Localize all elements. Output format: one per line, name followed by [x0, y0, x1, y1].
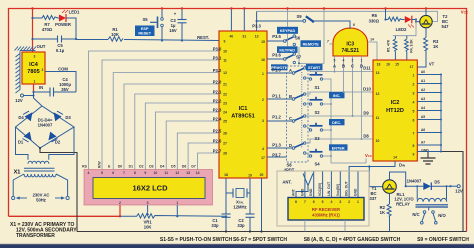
wire RF GND stubs — [305, 220, 345, 232]
svg-text:28: 28 — [223, 152, 227, 156]
svg-text:50Hz: 50Hz — [36, 198, 46, 203]
svg-text:6: 6 — [112, 171, 114, 175]
antenna — [296, 174, 313, 198]
svg-text:17: 17 — [410, 65, 414, 69]
switch S2 — [309, 103, 311, 105]
svg-text:LIN. OUT: LIN. OUT — [327, 182, 331, 196]
wire Vcc to R6 — [385, 9, 387, 20]
RF receiver module RX1 — [288, 198, 364, 221]
resistor R5 — [393, 36, 397, 60]
svg-text:P1.3: P1.3 — [272, 143, 281, 148]
svg-text:21: 21 — [223, 83, 227, 87]
svg-text:23: 23 — [223, 102, 227, 106]
svg-text:N/C: N/C — [412, 212, 419, 217]
wire S8-A up throw to D11 row — [306, 68, 373, 72]
svg-text:S9 = ON/OFF SWITCH: S9 = ON/OFF SWITCH — [417, 237, 469, 243]
wire bus P2.4 to LCD D4 — [166, 121, 219, 170]
wire 5V to R1/reset — [76, 40, 219, 41]
wire bus P2.2 to LCD D2 — [145, 103, 219, 170]
svg-text:P1.1: P1.1 — [272, 94, 281, 99]
ground symbol — [427, 152, 429, 158]
wire S3 right — [323, 129, 331, 131]
svg-text:5: 5 — [334, 59, 336, 63]
svg-text:17: 17 — [261, 156, 265, 160]
potentiometer VR1 — [120, 214, 226, 218]
wire A4 — [417, 110, 441, 112]
svg-text:330Ω: 330Ω — [369, 19, 380, 24]
svg-text:S9: S9 — [296, 14, 302, 19]
gate IC3 74LS21 — [333, 28, 368, 56]
svg-text:10K: 10K — [144, 225, 152, 230]
svg-text:6: 6 — [353, 23, 355, 27]
svg-text:33p: 33p — [211, 223, 219, 228]
wire A2 — [417, 92, 441, 94]
svg-text:ESP: ESP — [141, 27, 149, 31]
svg-text:5: 5 — [322, 200, 324, 204]
wire red IN — [33, 84, 35, 92]
label box KEYPAD 2 — [277, 46, 298, 53]
wire red Vcc vertical from top rail to IC4 OUT — [32, 9, 34, 53]
svg-text:12MHz: 12MHz — [233, 205, 246, 210]
label box ESP RESET — [135, 26, 155, 37]
svg-text:KEYPAD: KEYPAD — [280, 29, 296, 33]
svg-text:ENTER: ENTER — [332, 146, 345, 150]
svg-text:D2: D2 — [139, 165, 143, 169]
svg-text:IN: IN — [39, 85, 43, 90]
svg-text:74LS21: 74LS21 — [342, 48, 360, 54]
diode D4 — [25, 112, 33, 121]
node 12V relay supply — [449, 185, 451, 187]
svg-text:P1.2: P1.2 — [272, 115, 281, 120]
wire REMOTE common to Vcc drop — [299, 47, 324, 64]
wire XTAL pin18 — [226, 178, 233, 193]
svg-text:11: 11 — [164, 171, 168, 175]
svg-text:4: 4 — [330, 200, 332, 204]
svg-text:S4: S4 — [314, 162, 320, 167]
wire A6 — [417, 132, 441, 134]
wire LED2 junction down to R5 R4 — [393, 20, 416, 36]
wire bus P3.2 to LCD E — [113, 73, 219, 170]
capacitor C1 — [225, 193, 227, 232]
svg-text:D10: D10 — [363, 87, 371, 92]
svg-text:3: 3 — [339, 200, 341, 204]
svg-text:3: 3 — [413, 92, 415, 96]
svg-text:4: 4 — [262, 147, 264, 151]
svg-text:10: 10 — [223, 50, 227, 54]
wire bus P3.1 to LCD R/W — [102, 60, 219, 170]
ground rail bottom — [77, 231, 467, 233]
wire XTAL pin19 — [247, 178, 250, 193]
svg-text:R5, 47K: R5, 47K — [387, 39, 391, 52]
svg-text:P3.6: P3.6 — [272, 53, 281, 58]
svg-text:IC1: IC1 — [239, 106, 248, 112]
resistor R3 — [417, 37, 427, 67]
svg-text:START: START — [308, 66, 321, 70]
svg-text:A6: A6 — [421, 128, 425, 132]
svg-text:D2: D2 — [55, 140, 61, 145]
svg-text:N/O: N/O — [438, 213, 446, 218]
svg-text:D1: D1 — [18, 140, 24, 145]
svg-text:R4, 3.9K: R4, 3.9K — [410, 39, 414, 53]
bridge rectifier D1-D4 — [16, 106, 75, 148]
wire S2 right — [323, 103, 331, 105]
gate input column A — [334, 56, 336, 72]
resistor R1 — [108, 37, 123, 42]
svg-text:7: 7 — [123, 171, 125, 175]
LCD top pin numbers 4-14 — [88, 171, 200, 175]
LED1 — [59, 15, 66, 22]
svg-text:S6-S7 = SPDT SWITCH: S6-S7 = SPDT SWITCH — [233, 237, 287, 243]
decoder IC2 HT12D — [373, 60, 417, 161]
wire address common vertical — [440, 75, 442, 152]
svg-text:9: 9 — [224, 40, 226, 44]
LCD yellow display 16X2 LCD — [93, 178, 205, 199]
relay contacts N/C N/O — [423, 211, 426, 214]
microcontroller IC1 AT89C51 — [219, 31, 267, 178]
LCD signal labels RS R/W E D0-D7 — [82, 165, 196, 169]
svg-text:RS: RS — [82, 165, 87, 169]
svg-text:7805: 7805 — [27, 69, 39, 75]
svg-text:15: 15 — [395, 63, 399, 67]
svg-text:LED1: LED1 — [69, 10, 80, 15]
svg-text:S3: S3 — [314, 136, 320, 141]
svg-text:1: 1 — [361, 59, 363, 63]
switch S6 — [267, 40, 284, 42]
svg-text:1K: 1K — [380, 210, 385, 215]
wire P3.3 to S9 — [257, 20, 303, 22]
svg-text:D9: D9 — [363, 111, 369, 116]
svg-text:D11: D11 — [363, 66, 371, 71]
svg-text:VCC: VCC — [365, 153, 373, 158]
switch S5 reset — [161, 9, 163, 41]
heatsink for IC4 — [15, 47, 37, 94]
resistor R7 — [33, 16, 59, 20]
svg-text:C: C — [289, 116, 292, 121]
svg-text:C: C — [351, 64, 354, 69]
svg-text:1: 1 — [176, 201, 178, 205]
label box REMOTE 1 — [301, 40, 322, 47]
wire bus P2.5 to LCD D5 — [177, 133, 219, 170]
wire bridge GND (dark) — [40, 148, 77, 232]
wire IC1 pin31 EA Vcc — [243, 9, 245, 32]
svg-text:25: 25 — [223, 120, 227, 124]
svg-text:POWER: POWER — [55, 22, 71, 27]
wire A5 — [417, 119, 441, 121]
gate input column C — [352, 56, 354, 116]
switch S4 — [309, 155, 311, 157]
resistor R2 — [387, 193, 391, 231]
transistor T2 BC547 — [420, 15, 432, 27]
capacitor C4 electrolytic — [34, 91, 77, 93]
svg-text:433MHz (RX1): 433MHz (RX1) — [312, 213, 340, 218]
svg-text:3: 3 — [34, 55, 36, 59]
svg-text:2: 2 — [42, 68, 44, 72]
svg-text:RESET: RESET — [138, 32, 151, 36]
svg-text:VCC(5V): VCC(5V) — [318, 183, 322, 196]
svg-text:D3: D3 — [65, 115, 71, 120]
svg-text:D4: D4 — [18, 115, 24, 120]
wire S1 right — [323, 79, 366, 163]
wire S8-C up throw to D9 row — [306, 115, 373, 117]
svg-text:6: 6 — [413, 119, 415, 123]
wire T1 collector to relay line — [390, 172, 406, 186]
switch S3 — [309, 129, 311, 131]
svg-text:S5: S5 — [142, 17, 148, 22]
svg-text:REST.: REST. — [197, 35, 209, 40]
svg-text:22: 22 — [223, 93, 227, 97]
svg-text:9: 9 — [413, 153, 415, 157]
wire IC1 pin40 Vcc — [230, 9, 232, 32]
regulator IC4 7805 — [22, 52, 45, 84]
svg-text:REMOTE: REMOTE — [303, 43, 320, 47]
capacitor C5 — [33, 38, 77, 40]
wire KEYPAD pull to Vcc — [287, 9, 289, 47]
wire LCD pin3 to VR1 wiper — [147, 205, 149, 213]
svg-text:7: 7 — [413, 132, 415, 136]
wire primary left to terminal — [13, 174, 24, 196]
wire A7 — [417, 144, 441, 146]
svg-text:Vcc(5V): Vcc(5V) — [336, 184, 340, 196]
svg-text:A5: A5 — [421, 115, 425, 119]
svg-text:ANT.: ANT. — [292, 189, 296, 196]
svg-text:33p: 33p — [237, 223, 245, 228]
svg-text:3: 3 — [147, 201, 149, 205]
S8 mechanical link dotted — [301, 72, 303, 148]
svg-text:4: 4 — [413, 101, 415, 105]
svg-text:S8 (A, B, C, D) = 4PDT GANGED: S8 (A, B, C, D) = 4PDT GANGED SWITCH — [304, 237, 401, 243]
switch S7 — [267, 58, 284, 60]
wire bus P3.0 to LCD RS — [89, 51, 220, 170]
svg-text:470Ω: 470Ω — [42, 27, 53, 32]
svg-text:20: 20 — [260, 173, 264, 177]
svg-text:DEC.: DEC. — [332, 121, 341, 125]
svg-text:4: 4 — [88, 171, 90, 175]
LCD module pink board — [84, 170, 213, 206]
svg-text:12: 12 — [175, 171, 179, 175]
svg-text:AT89C51: AT89C51 — [231, 114, 255, 120]
label box REMOTE 2 — [271, 64, 288, 70]
switch S1 — [309, 78, 311, 80]
svg-text:31: 31 — [242, 35, 246, 39]
diode D5 1N4007 — [406, 185, 451, 187]
svg-text:S1-S5 = PUSH-TO-ON SWITCH: S1-S5 = PUSH-TO-ON SWITCH — [160, 237, 233, 243]
svg-text:A4: A4 — [421, 106, 425, 110]
wire IN down to bridge — [34, 92, 43, 106]
wire GND pin9 — [417, 151, 441, 153]
svg-text:D6: D6 — [182, 165, 186, 169]
IC1 left pin numbers — [223, 40, 227, 156]
svg-text:INC.: INC. — [333, 94, 341, 98]
gate input column D — [361, 56, 363, 139]
svg-text:RELAY: RELAY — [396, 201, 410, 206]
switch bank S8 dashed box — [287, 66, 309, 162]
svg-text:13: 13 — [255, 35, 259, 39]
svg-text:D8: D8 — [363, 134, 369, 139]
svg-text:B: B — [289, 94, 292, 99]
svg-text:D0: D0 — [118, 165, 122, 169]
svg-text:2: 2 — [413, 83, 415, 87]
svg-text:D7: D7 — [191, 165, 195, 169]
svg-text:16: 16 — [386, 63, 390, 67]
gate output pin 6 — [349, 21, 351, 29]
svg-text:D5: D5 — [171, 165, 175, 169]
svg-text:LED2: LED2 — [396, 27, 407, 32]
resistor R6 — [386, 17, 405, 21]
IC1 left port labels — [213, 47, 222, 154]
svg-text:35V: 35V — [61, 87, 69, 92]
svg-text:DIN: DIN — [399, 163, 405, 168]
svg-text:S2: S2 — [314, 110, 320, 115]
svg-text:KEYPAD: KEYPAD — [279, 49, 295, 53]
diode D2 — [48, 132, 56, 141]
transistor T1 BC337 — [383, 180, 397, 194]
svg-text:10K: 10K — [111, 32, 119, 37]
svg-text:D1: D1 — [129, 165, 133, 169]
svg-text:15: 15 — [261, 40, 265, 44]
switch S9 — [303, 20, 306, 23]
wire bus P2.3 to LCD D3 — [155, 112, 219, 170]
diode D1 — [24, 132, 32, 141]
svg-text:IC4: IC4 — [29, 62, 39, 68]
wire S8-C down throw to S3 — [306, 126, 309, 130]
wire Din pin14 — [349, 161, 395, 198]
svg-text:27: 27 — [223, 142, 227, 146]
wire S8-B down throw to S2 — [306, 103, 309, 105]
wire S8-B up throw to D10 row — [306, 92, 373, 94]
svg-text:1N4007: 1N4007 — [38, 123, 53, 128]
svg-text:COM: COM — [58, 67, 68, 72]
svg-text:IC3: IC3 — [346, 42, 354, 48]
svg-text:D: D — [289, 143, 292, 148]
svg-text:18: 18 — [377, 63, 381, 67]
svg-text:10: 10 — [154, 171, 158, 175]
wire IC1 pin20 GND — [261, 178, 263, 232]
wire A3 — [417, 101, 441, 103]
wire COM to C4 — [45, 72, 76, 93]
svg-text:A0: A0 — [421, 70, 425, 74]
wire bridge AC right — [49, 127, 74, 160]
svg-text:14: 14 — [196, 171, 200, 175]
label box KEYPAD 1 — [277, 27, 298, 34]
svg-text:11: 11 — [223, 59, 227, 63]
svg-text:A7: A7 — [421, 141, 425, 145]
svg-text:5: 5 — [413, 110, 415, 114]
svg-text:12V: 12V — [455, 189, 463, 194]
svg-text:18: 18 — [224, 173, 228, 177]
wire bus P2.6 to LCD D6 — [188, 143, 219, 170]
wire bridge AC left — [16, 127, 29, 160]
RF module enclosure — [277, 171, 369, 226]
svg-text:ANT.: ANT. — [282, 180, 291, 185]
svg-text:3: 3 — [262, 119, 264, 123]
svg-text:GND: GND — [309, 188, 313, 196]
svg-text:A1: A1 — [421, 79, 425, 83]
svg-text:12: 12 — [376, 92, 380, 96]
svg-text:1: 1 — [34, 80, 36, 84]
RF module rotated pin labels — [292, 181, 358, 196]
capacitor C3 electrolytic — [181, 9, 183, 41]
svg-text:26: 26 — [223, 132, 227, 136]
svg-text:4: 4 — [343, 59, 345, 63]
svg-text:A2: A2 — [421, 88, 425, 92]
svg-text:OUT: OUT — [37, 44, 46, 49]
svg-text:P3.5: P3.5 — [272, 34, 281, 39]
wire S8-D up throw to D8 row — [306, 139, 373, 143]
svg-text:GND: GND — [300, 188, 304, 196]
svg-text:1: 1 — [262, 72, 264, 76]
capacitor C2 — [249, 193, 251, 232]
wire IC1 pin13 P3.3 up — [256, 11, 258, 31]
svg-text:VT: VT — [429, 62, 435, 67]
svg-text:7: 7 — [304, 200, 306, 204]
node 12V terminal — [21, 94, 24, 97]
svg-text:8: 8 — [295, 200, 297, 204]
label box ENTER — [329, 144, 348, 150]
svg-text:GND: GND — [354, 188, 358, 196]
svg-text:0.1µ: 0.1µ — [56, 48, 65, 53]
svg-text:14: 14 — [370, 38, 374, 42]
gate input column B — [343, 56, 345, 92]
wire bus P2.1 to LCD D1 — [135, 94, 219, 170]
svg-text:VCC: VCC — [461, 10, 469, 15]
wire A0 — [417, 74, 441, 76]
svg-text:A3: A3 — [421, 97, 425, 101]
resistor R4 — [405, 36, 409, 60]
svg-text:S6: S6 — [295, 36, 301, 41]
svg-text:2: 2 — [262, 98, 264, 102]
svg-text:13: 13 — [376, 71, 380, 75]
diode D3 — [54, 112, 62, 121]
svg-text:16V: 16V — [169, 28, 177, 33]
wire bus P2.0 to LCD D0 — [124, 84, 219, 170]
label box DEC. — [329, 119, 345, 125]
svg-text:8: 8 — [134, 171, 136, 175]
svg-text:1N4007: 1N4007 — [407, 179, 422, 184]
svg-text:HT12D: HT12D — [386, 108, 404, 114]
svg-text:B: B — [342, 64, 345, 69]
wire S8-D down throw to S4 — [306, 153, 309, 156]
svg-text:IC2: IC2 — [391, 100, 400, 106]
svg-text:16: 16 — [261, 58, 265, 62]
LED2 — [405, 16, 412, 23]
svg-text:337: 337 — [370, 196, 378, 201]
LCD bottom pin numbers 2 3 1 — [119, 201, 178, 205]
svg-text:8: 8 — [413, 144, 415, 148]
wire primary right to terminal — [56, 174, 68, 196]
label box START — [306, 64, 323, 70]
svg-text:2: 2 — [119, 201, 121, 205]
crystal XTAL 12MHz — [232, 189, 234, 198]
svg-text:12: 12 — [223, 71, 227, 75]
label box INC. — [329, 92, 345, 98]
wire Vcc drop x324 — [323, 9, 325, 64]
wire gray line P3.3 top run — [257, 11, 438, 21]
wire A1 — [417, 83, 441, 85]
wire S9 to gate output — [313, 21, 350, 29]
svg-text:1: 1 — [413, 74, 415, 78]
svg-text:2: 2 — [352, 59, 354, 63]
wire LCD pin1 to ground line — [176, 205, 178, 216]
svg-text:16X2 LCD: 16X2 LCD — [132, 184, 168, 193]
svg-text:4PDT: 4PDT — [284, 168, 295, 173]
svg-text:DIG. OUT: DIG. OUT — [345, 181, 349, 196]
svg-text:D5: D5 — [434, 180, 440, 185]
svg-text:TRANSFORMER: TRANSFORMER — [16, 233, 55, 239]
svg-text:1: 1 — [357, 200, 359, 204]
svg-text:A: A — [289, 68, 292, 73]
svg-text:1K: 1K — [433, 44, 438, 49]
svg-text:X1: X1 — [14, 170, 21, 176]
